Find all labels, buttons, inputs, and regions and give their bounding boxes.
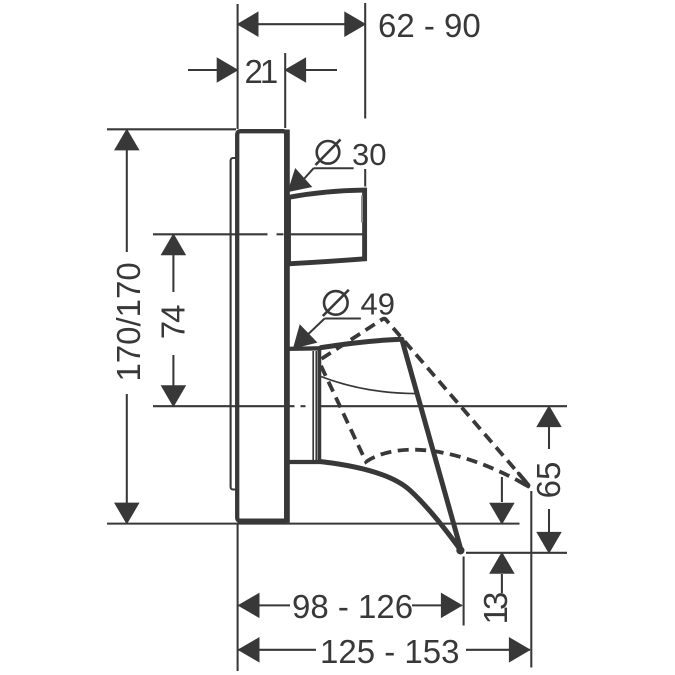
center line handle: [153, 405, 567, 407]
dimension 98-126: [239, 604, 462, 606]
dimension 21: [188, 69, 337, 71]
svg-text:30: 30: [352, 137, 386, 172]
center line spout: [153, 233, 365, 235]
dimension 125-153: [239, 649, 530, 651]
handle collar inner lines: [312, 351, 314, 461]
extension line handle tip level: [466, 552, 567, 554]
svg-text:13: 13: [477, 593, 514, 624]
lever inner contour line: [321, 377, 418, 394]
svg-text:74: 74: [155, 305, 192, 339]
handle collar right face: [318, 347, 322, 464]
extension line handle tip (vertical): [463, 557, 465, 626]
plate bottom heavy edge: [238, 519, 287, 525]
leader Ø30: [299, 168, 354, 184]
handle collar top edge: [285, 346, 321, 351]
phantom tip join: [519, 474, 529, 487]
escutcheon plate (21 mm thick): [237, 131, 286, 521]
svg-text:62 - 90: 62 - 90: [378, 7, 481, 44]
dimension 170/170: [126, 130, 128, 524]
svg-text:170/170: 170/170: [110, 262, 147, 381]
spout inner edge highlight: [361, 196, 363, 223]
svg-text:21: 21: [245, 53, 277, 90]
svg-text:49: 49: [361, 286, 395, 321]
lever tip: [456, 546, 464, 554]
extension line plate bottom: [107, 523, 520, 525]
diameter symbol Ø30: [316, 140, 341, 166]
svg-text:98 - 126: 98 - 126: [292, 588, 413, 625]
dimension 13: [501, 477, 503, 593]
phantom lever position lower edge (dashed): [321, 366, 529, 487]
lever handle Ø49 solid outline: [321, 339, 461, 551]
extension line wall face (vertical): [237, 4, 239, 129]
diameter symbol Ø49: [323, 290, 349, 316]
spout Ø30: [289, 190, 365, 264]
concealed body flange behind plate: [231, 158, 238, 490]
dimension 74: [172, 234, 174, 406]
extension line spout end (vertical, for 62-90): [364, 3, 366, 119]
dimension 62-90: [238, 23, 366, 25]
phantom lever position upper edge (dashed): [322, 319, 530, 486]
plate front face heavy edge: [284, 130, 290, 523]
extension line plate top: [107, 128, 236, 130]
handle collar bottom edge: [285, 460, 321, 464]
svg-text:65: 65: [530, 462, 567, 499]
extension line plate front (vertical, for 21): [284, 53, 286, 128]
dimension 65: [548, 406, 550, 553]
svg-text:125 - 153: 125 - 153: [320, 633, 459, 670]
leader Ø49: [300, 319, 361, 343]
extension line phantom tip (vertical): [530, 491, 532, 668]
